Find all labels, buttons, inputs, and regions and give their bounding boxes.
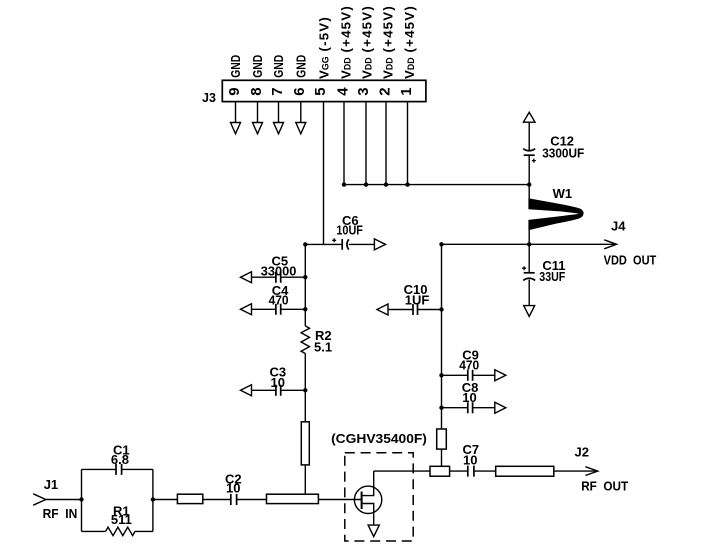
microstrip line TL3 <box>267 494 319 503</box>
capacitor C3 10 <box>241 364 306 396</box>
svg-text:J3: J3 <box>202 91 216 105</box>
wire TL3 to transistor gate <box>318 499 361 501</box>
svg-text:7: 7 <box>269 87 286 95</box>
transistor package dashed box <box>345 453 413 541</box>
node box right <box>151 497 155 501</box>
svg-text:10: 10 <box>462 390 476 405</box>
node rail-vddout <box>439 242 443 246</box>
inductor W1 (wire loop) <box>528 198 583 230</box>
node bus-W1 <box>527 182 531 186</box>
wire TL4 to C7 <box>450 470 468 472</box>
svg-text:VGG (-5V): VGG (-5V) <box>316 16 331 79</box>
node pin4-bus <box>342 182 346 186</box>
node W1-vddout <box>527 242 531 246</box>
node box left <box>79 497 83 501</box>
svg-text:3: 3 <box>355 87 372 95</box>
svg-text:(CGHV35400F): (CGHV35400F) <box>331 431 427 446</box>
ground pin 9 <box>235 102 237 123</box>
svg-text:VDD (+45V): VDD (+45V) <box>402 5 417 79</box>
wire pin 5 to gate rail <box>323 102 325 245</box>
wire TL5 to J2 <box>554 470 596 472</box>
svg-text:VDD OUT: VDD OUT <box>604 253 657 268</box>
svg-text:J4: J4 <box>611 219 626 234</box>
microstrip line TL5 <box>496 466 554 476</box>
resistor R2 5.1 <box>301 326 332 355</box>
microstrip line TL6 <box>437 429 447 449</box>
wire pin 1 <box>407 102 409 185</box>
node C10-rail <box>439 307 443 311</box>
svg-text:VDD (+45V): VDD (+45V) <box>359 5 374 79</box>
svg-text:1: 1 <box>398 87 415 95</box>
wire TL2 to C2 <box>203 499 231 501</box>
svg-text:470: 470 <box>269 292 289 307</box>
svg-text:GND: GND <box>294 55 309 78</box>
wire box to TL2 <box>153 499 178 501</box>
wire VDD bus <box>344 184 529 186</box>
capacitor C7 10 <box>463 442 496 476</box>
svg-text:5: 5 <box>312 87 329 95</box>
off-page arrow above C12 <box>523 112 535 122</box>
node pin2-bus <box>384 182 388 186</box>
connector J4 arrowhead <box>604 240 616 249</box>
ground pin 8 <box>257 102 259 123</box>
svg-text:W1: W1 <box>553 186 573 201</box>
wire drain to TL4 <box>374 470 430 472</box>
node pin3-bus <box>364 182 368 186</box>
svg-text:10: 10 <box>226 481 240 496</box>
wire gate rail corner <box>305 244 342 421</box>
svg-text:3300UF: 3300UF <box>542 146 584 161</box>
svg-text:10UF: 10UF <box>336 223 363 238</box>
resistor R1 511 <box>106 504 135 536</box>
svg-text:9: 9 <box>226 87 243 95</box>
node pin1-bus <box>405 182 409 186</box>
capacitor C12 3300UF <box>523 134 584 163</box>
capacitor C6 10UF <box>332 213 385 250</box>
capacitor C11 33UF <box>522 258 565 284</box>
capacitor C9 470 <box>442 348 506 381</box>
node C8-rail <box>439 406 443 410</box>
capacitor C8 10 <box>442 380 506 413</box>
input matching network frame wires <box>82 469 153 531</box>
wire VDD out line to C11 <box>528 244 530 272</box>
wire VDD out line <box>442 243 615 245</box>
connector J3 body <box>222 80 426 101</box>
svg-text:33UF: 33UF <box>539 269 565 284</box>
wire W1 to VDD out line <box>528 230 530 244</box>
wire drain bias vertical <box>441 449 443 466</box>
svg-text:511: 511 <box>111 512 132 527</box>
microstrip line TL2 <box>177 494 202 503</box>
svg-text:470: 470 <box>459 358 479 373</box>
connector J1 <box>33 477 81 521</box>
wire arrow to C12 <box>528 122 530 150</box>
wire C11 to ground <box>528 280 530 306</box>
connector J2 arrowhead <box>585 467 597 476</box>
wire C12 to W1 <box>528 155 530 199</box>
svg-text:RF OUT: RF OUT <box>581 479 628 494</box>
microstrip line TL4 <box>430 466 450 476</box>
svg-text:5.1: 5.1 <box>314 340 332 355</box>
wire stub to gate line <box>304 465 306 494</box>
capacitor C1 6.8 <box>111 443 130 475</box>
svg-text:10: 10 <box>463 452 477 467</box>
svg-text:1UF: 1UF <box>405 292 430 307</box>
svg-text:J1: J1 <box>44 477 58 492</box>
svg-text:RF IN: RF IN <box>43 506 78 521</box>
svg-text:6.8: 6.8 <box>111 452 129 467</box>
svg-text:VDD (+45V): VDD (+45V) <box>338 5 353 79</box>
svg-text:2: 2 <box>376 87 393 95</box>
svg-text:8: 8 <box>248 87 265 95</box>
wire drain bias rail <box>441 244 443 429</box>
capacitor C5 33000 <box>241 254 306 283</box>
ground pin 6 <box>300 102 302 123</box>
node C9-rail <box>439 373 443 377</box>
svg-text:J2: J2 <box>575 445 589 460</box>
capacitor C4 470 <box>241 283 306 315</box>
wire pin 3 <box>365 102 367 185</box>
svg-text:10: 10 <box>271 375 285 390</box>
node gate rail corner <box>303 242 307 246</box>
node C4-rail <box>303 307 307 311</box>
svg-text:VDD (+45V): VDD (+45V) <box>380 5 395 79</box>
wire pin 4 <box>343 102 345 185</box>
capacitor C2 10 <box>225 471 267 505</box>
svg-text:GND: GND <box>250 55 265 78</box>
svg-text:6: 6 <box>291 87 308 95</box>
node C3-rail <box>303 388 307 392</box>
ground below C11 <box>524 306 535 317</box>
wire pin 2 <box>385 102 387 185</box>
microstrip line gate stub <box>301 422 309 465</box>
svg-text:GND: GND <box>228 55 243 78</box>
svg-text:GND: GND <box>271 55 286 78</box>
svg-text:33000: 33000 <box>261 263 297 278</box>
ground pin 7 <box>278 102 280 123</box>
capacitor C10 1UF <box>377 282 442 315</box>
svg-text:4: 4 <box>334 87 351 96</box>
transistor Q1 (CGHV35400F) <box>354 471 381 525</box>
node C5-rail <box>303 275 307 279</box>
ground transistor source <box>368 525 379 537</box>
